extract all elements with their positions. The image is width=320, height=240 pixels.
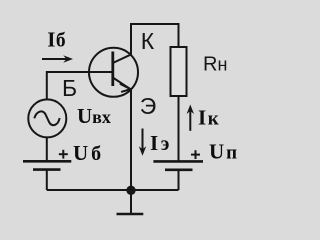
transistor VT1 emitter lead with arrow <box>113 78 131 92</box>
wire: emitter vertical down to junction <box>130 90 132 191</box>
ground <box>117 190 144 214</box>
wire: collector vertical (top rail down to transistor collector) <box>130 23 132 55</box>
wire: resistor bottom to battery Uп positive plate <box>178 96 180 161</box>
label: plus sign of Uб <box>59 150 68 159</box>
current arrow Iб (rightward) <box>42 55 73 62</box>
transistor VT1 base bar <box>111 52 114 87</box>
svg-text:Rн: Rн <box>203 54 227 76</box>
wire: top rail from collector branch to load branch <box>131 23 179 25</box>
svg-text:Iк: Iк <box>198 106 219 130</box>
wire: bottom rail <box>47 189 179 191</box>
svg-text:К: К <box>141 28 155 54</box>
battery GB2 Uп: positive long plate <box>153 160 203 163</box>
svg-text:Uп: Uп <box>209 140 237 164</box>
svg-text:Iб: Iб <box>47 27 66 51</box>
resistor Rн <box>171 47 187 96</box>
wire: load branch vertical (top rail down to resistor) <box>178 23 180 47</box>
svg-text:Uб: Uб <box>73 141 101 165</box>
current arrow Iэ (downward) <box>139 129 146 156</box>
transistor VT1 collector lead <box>113 55 131 64</box>
label: plus sign of Uп <box>191 150 200 159</box>
wire: base wire from input corner to transistor base <box>47 71 112 73</box>
current arrow Iк (upward) <box>187 105 194 131</box>
battery GB2 Uп: negative short plate <box>165 169 193 172</box>
wire: AC source to battery Uб <box>46 137 48 161</box>
svg-text:Uвх: Uвх <box>77 104 111 128</box>
wire: battery Uб negative plate to bottom rail <box>46 170 48 190</box>
AC source G1 (input signal) <box>28 99 66 137</box>
battery GB1 Uб: positive long plate <box>23 160 71 163</box>
wire: battery Uп negative plate down and to bottom rail <box>178 170 180 190</box>
svg-text:Э: Э <box>140 93 157 119</box>
battery GB1 Uб: negative short plate <box>33 168 61 171</box>
junction: bottom node dot <box>126 186 135 195</box>
wire: input branch vertical down to AC source <box>46 71 48 99</box>
svg-text:Б: Б <box>62 75 77 101</box>
transistor VT1 (NPN) body circle <box>89 48 138 97</box>
